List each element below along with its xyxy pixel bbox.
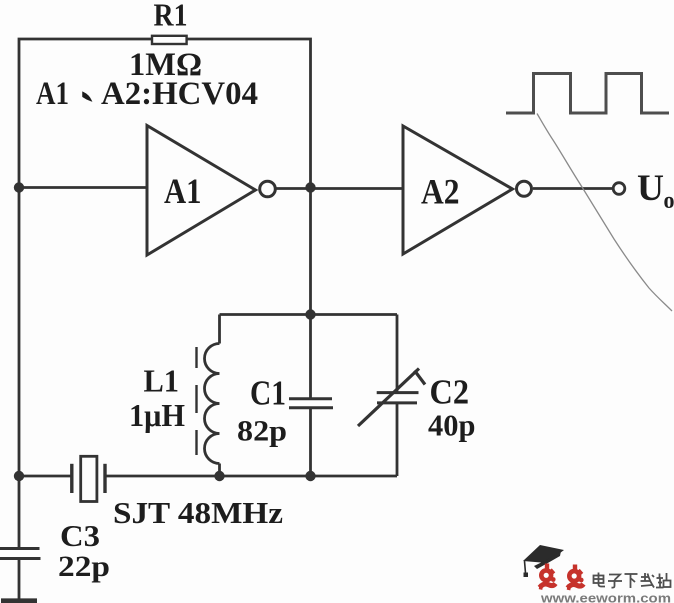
svg-text:40p: 40p bbox=[428, 408, 476, 443]
svg-text:C2: C2 bbox=[430, 373, 470, 412]
svg-text:o: o bbox=[664, 188, 674, 214]
svg-text:C1: C1 bbox=[250, 374, 286, 413]
svg-text:L1: L1 bbox=[144, 363, 180, 399]
svg-text:SJT 48MHz: SJT 48MHz bbox=[113, 495, 283, 530]
svg-text:R1: R1 bbox=[154, 0, 188, 33]
svg-text:A2: A2 bbox=[421, 172, 460, 212]
svg-text:A1: A1 bbox=[164, 171, 202, 211]
svg-text:C3: C3 bbox=[60, 518, 100, 553]
svg-text:U: U bbox=[637, 168, 664, 209]
svg-text:A1: A1 bbox=[36, 76, 69, 112]
svg-text:82p: 82p bbox=[237, 415, 287, 448]
svg-text:www.eeworm.com: www.eeworm.com bbox=[540, 592, 671, 603]
svg-text:1μH: 1μH bbox=[129, 398, 185, 433]
svg-text:A2:HCV04: A2:HCV04 bbox=[101, 76, 258, 112]
svg-text:22p: 22p bbox=[58, 551, 110, 583]
